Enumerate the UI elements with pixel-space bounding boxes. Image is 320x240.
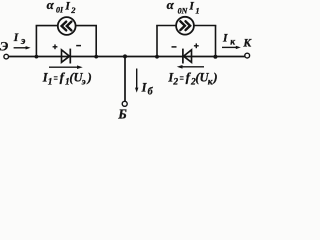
svg-text:э: э: [20, 36, 26, 47]
value label alpha_0N I_1: [167, 0, 200, 15]
terminal Э: [4, 54, 9, 59]
junction dot right loop left: [155, 55, 159, 59]
terminal К: [245, 53, 250, 58]
svg-text:2: 2: [70, 5, 76, 15]
diode VD2 cathode bar: [182, 49, 184, 64]
svg-text:): ): [212, 71, 217, 85]
caption label I_1 = f_1(U_Э): [42, 70, 92, 88]
base wire down to Б: [124, 57, 126, 102]
svg-text:I: I: [64, 0, 70, 12]
arrow I_К: [222, 46, 241, 49]
junction dot base tap: [123, 54, 127, 58]
svg-text:): ): [87, 71, 92, 85]
diode VD1 triangle: [62, 50, 70, 63]
svg-text:б: б: [148, 86, 154, 97]
junction dot left loop right: [94, 55, 98, 59]
diode VD2 minus sign: [172, 46, 177, 48]
svg-text:1: 1: [48, 78, 53, 88]
left loop top rail wire: [36, 25, 97, 27]
junction dot left loop left: [35, 55, 39, 59]
current source J1 (alpha_0I * I_2) circle: [58, 17, 76, 35]
caption label I_2 = f_2(U_К): [167, 70, 217, 88]
arrow I_Э: [14, 46, 31, 49]
svg-text:Э: Э: [0, 38, 9, 53]
svg-text:К: К: [242, 38, 252, 50]
svg-text:э: э: [81, 78, 86, 88]
svg-text:2: 2: [172, 78, 178, 88]
diode VD2 plus sign: [194, 43, 199, 48]
svg-text:α: α: [47, 0, 55, 12]
left loop left edge wire: [35, 26, 37, 57]
svg-text:I: I: [222, 33, 228, 45]
svg-text:I: I: [13, 32, 19, 44]
arrow I_Б down: [135, 69, 138, 93]
junction dot right loop right: [213, 55, 217, 59]
current source J1 double chevron left: [62, 22, 72, 31]
diode VD2 triangle: [184, 50, 192, 63]
caption arrow I2 direction: [177, 65, 204, 69]
svg-text:I: I: [141, 81, 148, 95]
right loop right edge wire: [215, 26, 217, 57]
svg-text:0I: 0I: [56, 6, 64, 15]
right loop left edge wire: [156, 26, 158, 57]
current source J2 (alpha_0N * I_1) circle: [176, 17, 194, 35]
value label alpha_0I I_2: [47, 0, 77, 15]
svg-text:1: 1: [195, 5, 199, 15]
diode VD1 plus sign: [53, 44, 58, 49]
current label I_К: [222, 33, 236, 48]
left loop right edge wire: [95, 26, 97, 57]
terminal Б: [122, 101, 127, 106]
current label I_Б: [141, 81, 154, 98]
svg-text:к: к: [230, 38, 236, 48]
diode VD1 minus sign: [76, 45, 81, 47]
svg-text:α: α: [167, 0, 175, 12]
main wire Э to К: [8, 56, 244, 58]
right loop top rail wire: [156, 25, 216, 27]
caption arrow I1 direction: [49, 65, 83, 69]
diode VD1 cathode bar: [69, 49, 71, 64]
svg-text:Б: Б: [117, 107, 127, 122]
svg-text:0N: 0N: [178, 6, 189, 15]
svg-text:I: I: [188, 0, 194, 12]
current label I_Э: [13, 32, 26, 47]
current source J2 double chevron right: [180, 21, 190, 30]
